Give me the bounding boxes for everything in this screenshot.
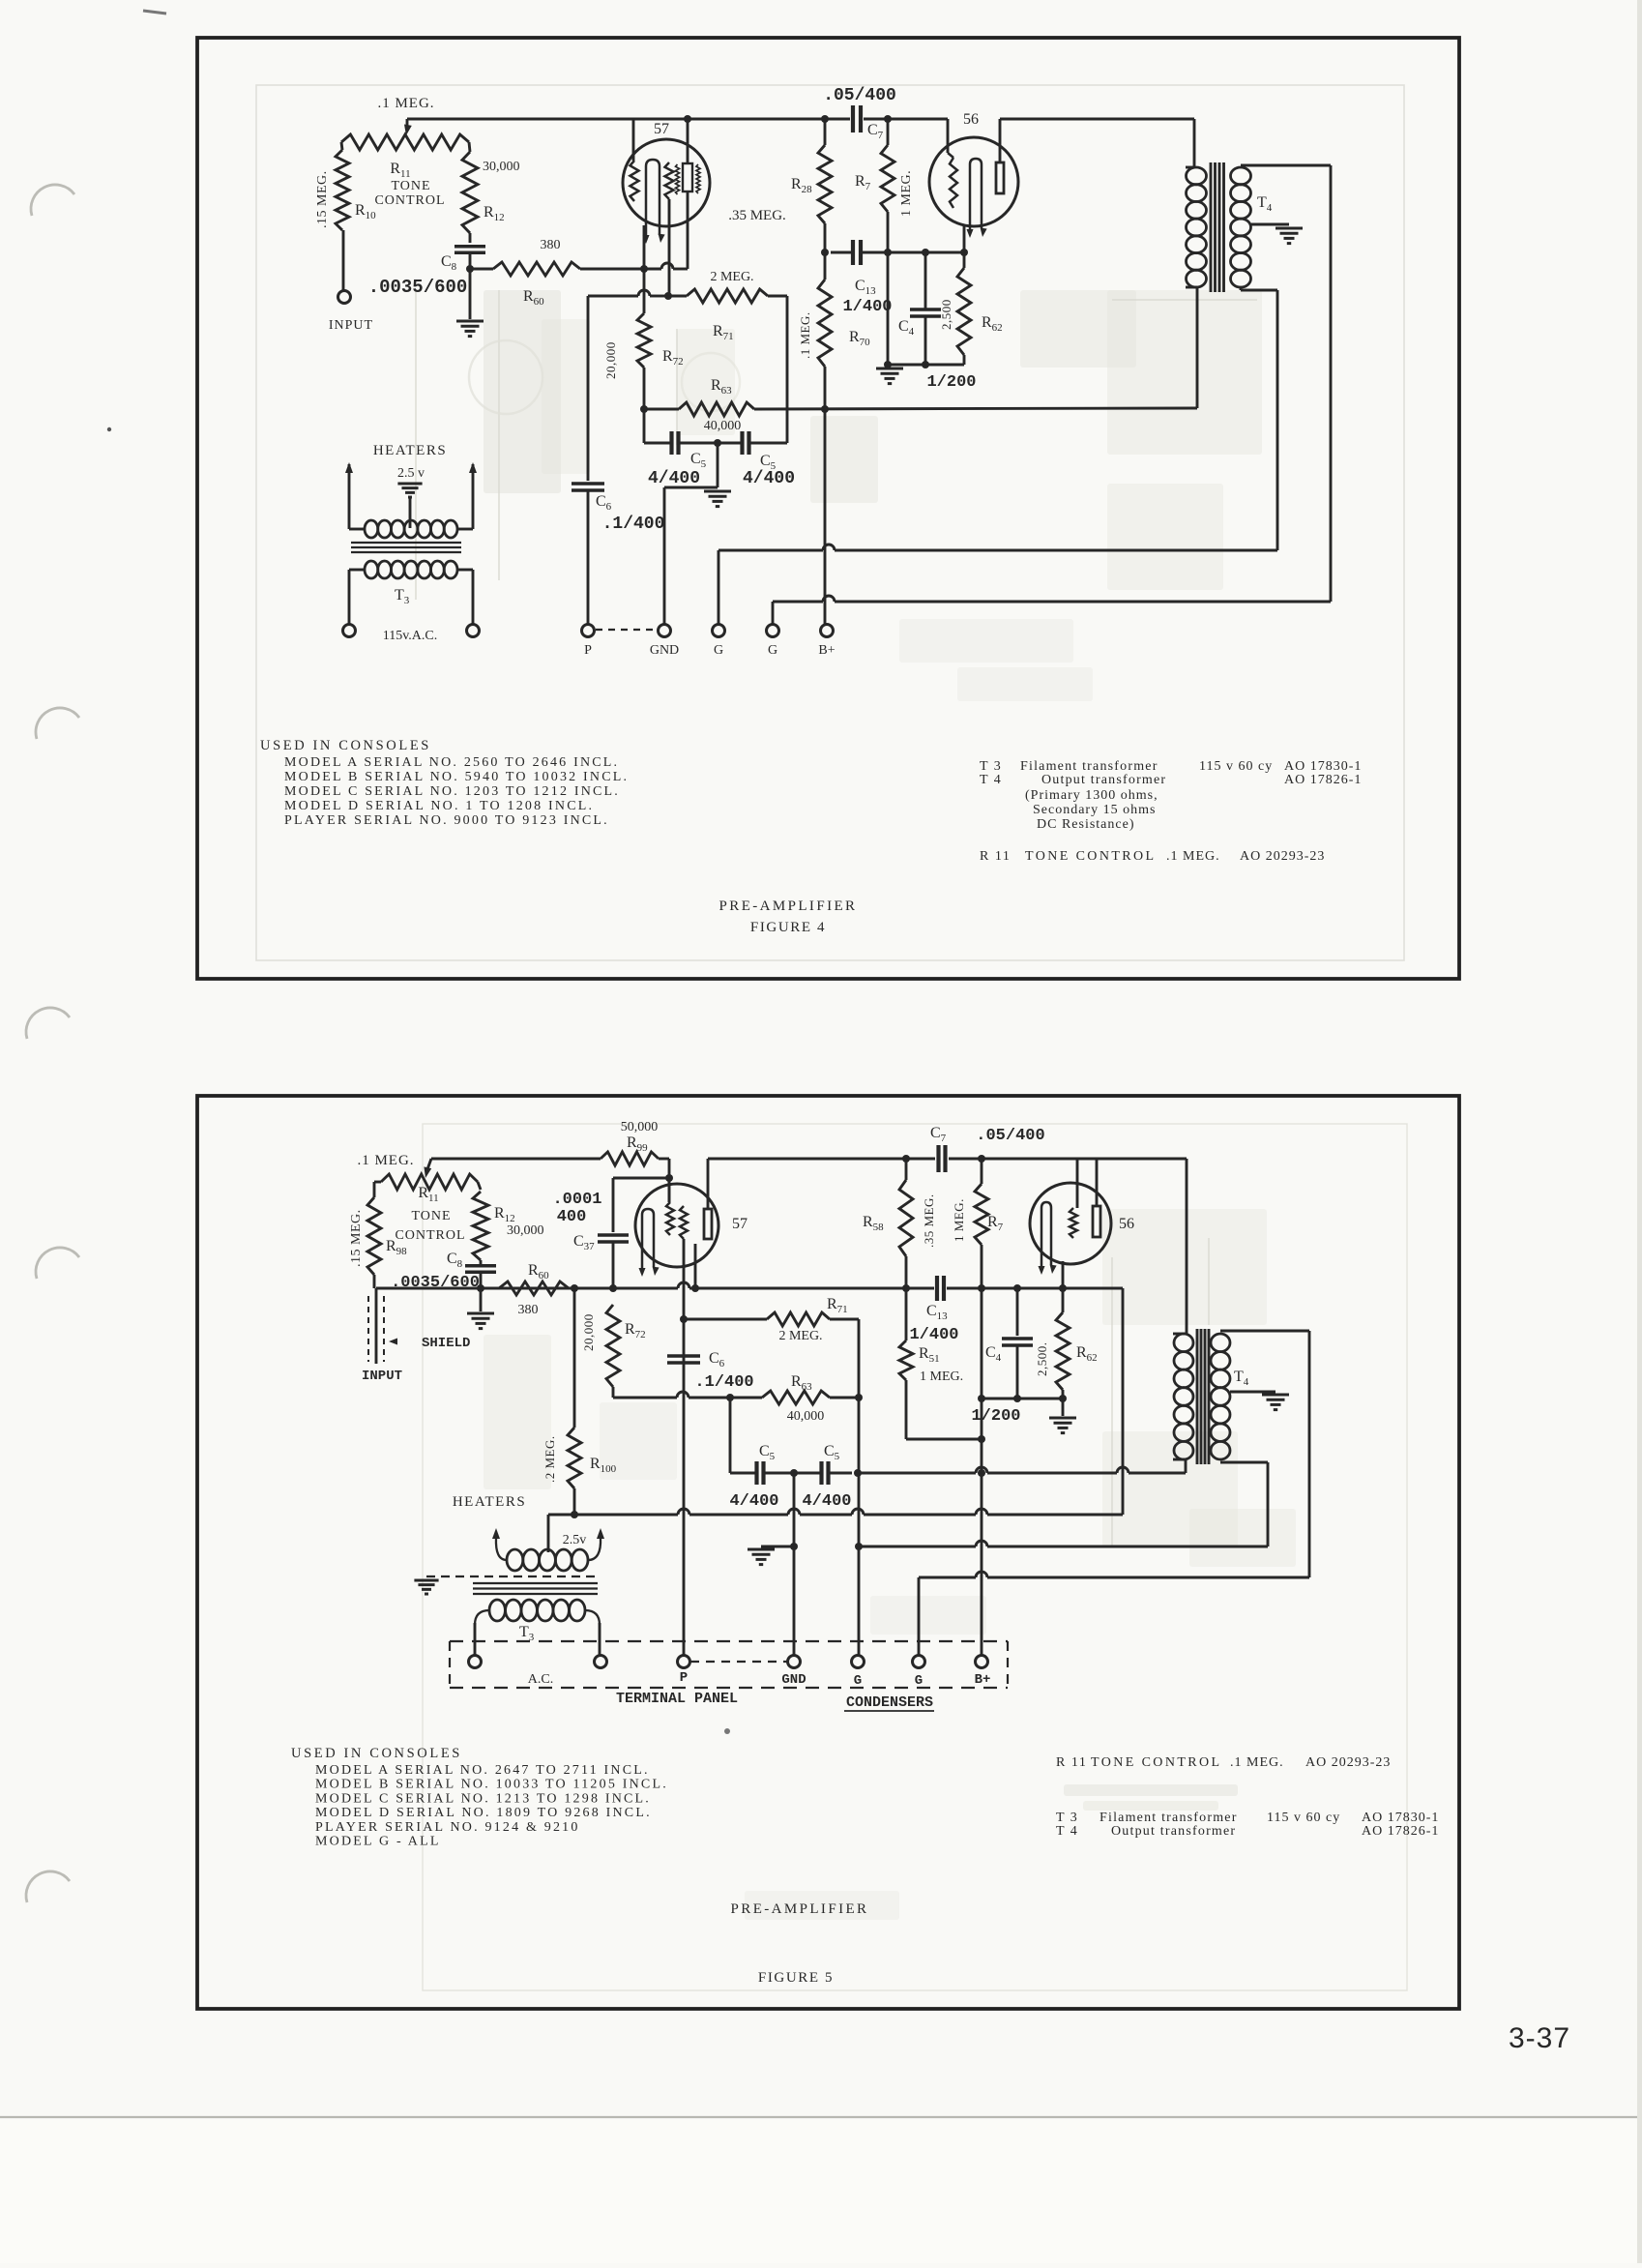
svg-text:1/400: 1/400: [842, 298, 892, 316]
svg-text:2.5 v: 2.5 v: [397, 466, 425, 481]
svg-text:.35 MEG.: .35 MEG.: [922, 1193, 936, 1248]
svg-text:.1 MEG.: .1 MEG.: [1166, 849, 1220, 864]
svg-text:TERMINAL PANEL: TERMINAL PANEL: [616, 1691, 738, 1707]
svg-text:CONTROL: CONTROL: [395, 1228, 465, 1243]
svg-text:PLAYER SERIAL NO. 9124 & 9210: PLAYER SERIAL NO. 9124 & 9210: [315, 1820, 580, 1835]
svg-text:MODEL G - ALL: MODEL G - ALL: [315, 1835, 441, 1849]
svg-text:.0035/600: .0035/600: [368, 277, 468, 298]
svg-text:CONTROL: CONTROL: [374, 193, 445, 208]
svg-text:Secondary 15 ohms: Secondary 15 ohms: [1033, 803, 1156, 817]
svg-text:R 11: R 11: [1056, 1755, 1087, 1770]
svg-text:MODEL C SERIAL NO. 1213 TO 129: MODEL C SERIAL NO. 1213 TO 1298 INCL.: [315, 1791, 651, 1806]
svg-text:TONE: TONE: [411, 1209, 451, 1223]
svg-text:G: G: [768, 643, 777, 658]
svg-text:.15 MEG.: .15 MEG.: [349, 1209, 364, 1267]
svg-text:Output transformer: Output transformer: [1041, 773, 1166, 787]
svg-text:4/400: 4/400: [802, 1492, 851, 1511]
svg-text:115v.A.C.: 115v.A.C.: [383, 629, 438, 643]
svg-text:.0001: .0001: [552, 1191, 601, 1209]
svg-text:G: G: [854, 1673, 862, 1689]
svg-text:AO 20293-23: AO 20293-23: [1305, 1755, 1391, 1770]
svg-text:57: 57: [654, 121, 669, 137]
svg-text:T 4: T 4: [1056, 1824, 1078, 1839]
svg-text:A.C.: A.C.: [528, 1672, 553, 1687]
svg-text:56: 56: [1119, 1216, 1134, 1232]
svg-text:FIGURE 4: FIGURE 4: [750, 920, 826, 935]
svg-text:4/400: 4/400: [648, 469, 700, 488]
svg-text:.35 MEG.: .35 MEG.: [728, 208, 786, 223]
svg-text:Filament transformer: Filament transformer: [1100, 1811, 1238, 1825]
svg-text:.1 MEG.: .1 MEG.: [798, 311, 812, 359]
svg-text:.1/400: .1/400: [602, 515, 665, 534]
svg-text:PRE-AMPLIFIER: PRE-AMPLIFIER: [731, 1901, 869, 1917]
svg-text:3-37: 3-37: [1509, 2022, 1570, 2054]
svg-text:.15 MEG.: .15 MEG.: [315, 170, 330, 228]
svg-text:56: 56: [963, 111, 979, 128]
svg-text:1 MEG.: 1 MEG.: [899, 170, 914, 217]
svg-text:4/400: 4/400: [743, 469, 795, 488]
svg-text:.1/400: .1/400: [694, 1373, 753, 1392]
svg-text:2,500.: 2,500.: [1035, 1342, 1049, 1377]
svg-text:50,000: 50,000: [621, 1120, 659, 1134]
svg-text:GND: GND: [781, 1672, 806, 1688]
svg-text:MODEL B SERIAL NO. 5940 TO 100: MODEL B SERIAL NO. 5940 TO 10032 INCL.: [284, 770, 629, 784]
svg-text:G: G: [714, 643, 723, 658]
svg-text:TONE: TONE: [391, 179, 430, 193]
svg-text:P: P: [584, 643, 592, 658]
svg-text:400: 400: [557, 1208, 587, 1226]
svg-text:USED IN CONSOLES: USED IN CONSOLES: [260, 738, 431, 753]
svg-text:AO 17830-1: AO 17830-1: [1284, 759, 1362, 774]
svg-text:PRE-AMPLIFIER: PRE-AMPLIFIER: [719, 898, 858, 914]
svg-text:USED IN CONSOLES: USED IN CONSOLES: [291, 1746, 462, 1761]
svg-text:Filament transformer: Filament transformer: [1020, 759, 1158, 774]
svg-text:40,000: 40,000: [704, 419, 742, 433]
svg-text:FIGURE 5: FIGURE 5: [758, 1970, 834, 1986]
svg-text:1/400: 1/400: [909, 1326, 958, 1344]
svg-text:MODEL D SERIAL NO. 1 TO 1208 I: MODEL D SERIAL NO. 1 TO 1208 INCL.: [284, 799, 594, 813]
svg-text:2,500: 2,500: [939, 299, 953, 330]
svg-text:HEATERS: HEATERS: [373, 443, 447, 458]
svg-text:MODEL D SERIAL NO. 1809 TO 926: MODEL D SERIAL NO. 1809 TO 9268 INCL.: [315, 1806, 652, 1820]
svg-text:1 MEG.: 1 MEG.: [920, 1370, 963, 1384]
svg-text:1 MEG.: 1 MEG.: [952, 1198, 966, 1242]
svg-text:Output transformer: Output transformer: [1111, 1824, 1236, 1839]
svg-text:.0035/600: .0035/600: [391, 1274, 480, 1292]
svg-text:P: P: [680, 1670, 688, 1686]
svg-text:57: 57: [732, 1216, 748, 1232]
svg-text:2 MEG.: 2 MEG.: [778, 1329, 822, 1343]
svg-text:R 11: R 11: [980, 849, 1011, 864]
svg-text:30,000: 30,000: [483, 160, 520, 174]
svg-text:30,000: 30,000: [507, 1223, 544, 1238]
svg-text:2.5v: 2.5v: [563, 1533, 587, 1547]
svg-text:MODEL A SERIAL NO. 2647 TO 271: MODEL A SERIAL NO. 2647 TO 2711 INCL.: [315, 1763, 650, 1778]
svg-text:CONDENSERS: CONDENSERS: [846, 1694, 933, 1711]
svg-text:TONE CONTROL: TONE CONTROL: [1025, 849, 1156, 864]
svg-text:.1 MEG.: .1 MEG.: [1230, 1755, 1284, 1770]
svg-text:HEATERS: HEATERS: [453, 1494, 526, 1510]
svg-text:.1 MEG.: .1 MEG.: [357, 1153, 414, 1168]
svg-text:40,000: 40,000: [787, 1409, 825, 1424]
svg-text:.2 MEG.: .2 MEG.: [542, 1435, 557, 1483]
svg-text:1/200: 1/200: [926, 373, 976, 392]
svg-text:AO 17826-1: AO 17826-1: [1362, 1824, 1439, 1839]
svg-text:1/200: 1/200: [971, 1407, 1020, 1426]
svg-text:AO 17830-1: AO 17830-1: [1362, 1811, 1439, 1825]
svg-text:MODEL B SERIAL NO. 10033 TO 11: MODEL B SERIAL NO. 10033 TO 11205 INCL.: [315, 1778, 668, 1792]
svg-text:MODEL C SERIAL NO. 1203 TO 121: MODEL C SERIAL NO. 1203 TO 1212 INCL.: [284, 784, 620, 799]
svg-text:GND: GND: [650, 643, 679, 658]
svg-text:380: 380: [541, 238, 561, 252]
svg-text:.1 MEG.: .1 MEG.: [377, 96, 434, 111]
svg-text:20,000: 20,000: [581, 1313, 596, 1351]
svg-text:2 MEG.: 2 MEG.: [710, 270, 753, 284]
svg-text:T 3: T 3: [1056, 1811, 1078, 1825]
svg-text:TONE CONTROL: TONE CONTROL: [1091, 1755, 1221, 1770]
svg-text:.05/400: .05/400: [823, 86, 896, 105]
svg-text:115 v 60 cy: 115 v 60 cy: [1267, 1811, 1340, 1825]
svg-text:115 v 60 cy: 115 v 60 cy: [1199, 759, 1273, 774]
svg-text:.05/400: .05/400: [976, 1127, 1044, 1145]
svg-text:PLAYER SERIAL NO. 9000 TO 912: PLAYER SERIAL NO. 9000 TO 9123 INCL.: [284, 813, 609, 828]
svg-text:B+: B+: [818, 643, 835, 658]
svg-text:AO 17826-1: AO 17826-1: [1284, 773, 1362, 787]
svg-text:B+: B+: [975, 1672, 991, 1688]
svg-text:20,000: 20,000: [603, 341, 618, 379]
svg-text:INPUT: INPUT: [362, 1369, 402, 1384]
svg-text:MODEL A SERIAL NO. 2560 TO 264: MODEL A SERIAL NO. 2560 TO 2646 INCL.: [284, 755, 619, 770]
svg-text:T 4: T 4: [980, 773, 1002, 787]
svg-text:DC Resistance): DC Resistance): [1037, 817, 1134, 832]
svg-text:380: 380: [518, 1303, 539, 1317]
svg-text:INPUT: INPUT: [329, 318, 373, 333]
svg-text:(Primary 1300 ohms,: (Primary 1300 ohms,: [1025, 788, 1158, 803]
svg-text:G: G: [915, 1673, 923, 1689]
svg-text:4/400: 4/400: [729, 1492, 778, 1511]
svg-text:T 3: T 3: [980, 759, 1002, 774]
svg-text:AO 20293-23: AO 20293-23: [1240, 849, 1325, 864]
svg-text:SHIELD: SHIELD: [422, 1336, 470, 1351]
